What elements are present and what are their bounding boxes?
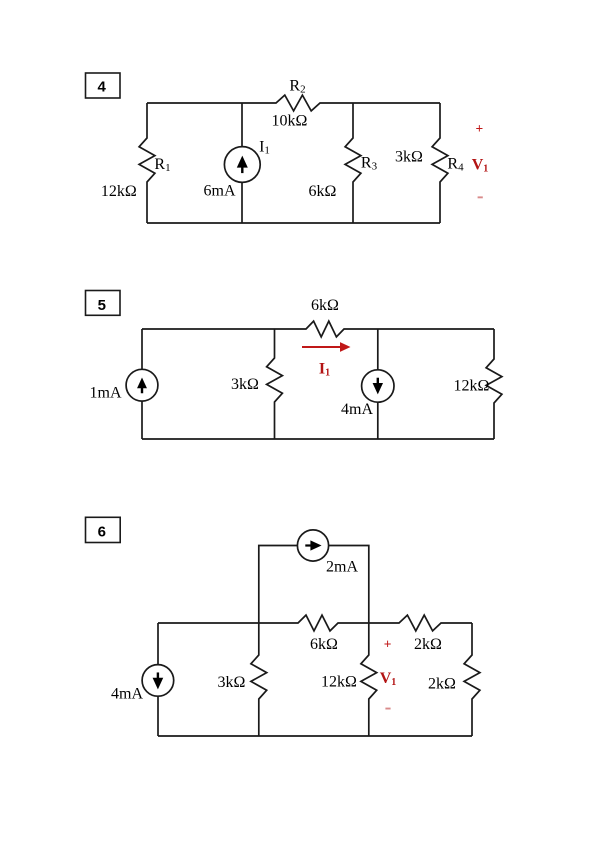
svg-text:+: +	[384, 637, 392, 652]
svg-text:3kΩ: 3kΩ	[395, 148, 423, 165]
svg-text:6kΩ: 6kΩ	[309, 183, 337, 200]
svg-text:10kΩ: 10kΩ	[272, 113, 308, 130]
svg-text:6: 6	[98, 524, 106, 541]
svg-text:+: +	[475, 121, 483, 136]
svg-text:12kΩ: 12kΩ	[321, 673, 357, 690]
svg-text:12kΩ: 12kΩ	[454, 377, 490, 394]
svg-text:6mA: 6mA	[204, 183, 236, 200]
svg-text:3kΩ: 3kΩ	[218, 674, 246, 691]
svg-text:4: 4	[98, 79, 107, 96]
svg-text:4mA: 4mA	[341, 401, 373, 418]
svg-text:2mA: 2mA	[326, 559, 358, 576]
svg-text:2kΩ: 2kΩ	[414, 636, 442, 653]
svg-text:6kΩ: 6kΩ	[310, 636, 338, 653]
svg-text:4mA: 4mA	[111, 685, 143, 702]
svg-text:1mA: 1mA	[90, 384, 122, 401]
svg-text:3kΩ: 3kΩ	[231, 376, 259, 393]
svg-text:5: 5	[98, 297, 106, 314]
svg-text:12kΩ: 12kΩ	[101, 183, 137, 200]
svg-text:6kΩ: 6kΩ	[311, 297, 339, 314]
svg-text:2kΩ: 2kΩ	[428, 675, 456, 692]
